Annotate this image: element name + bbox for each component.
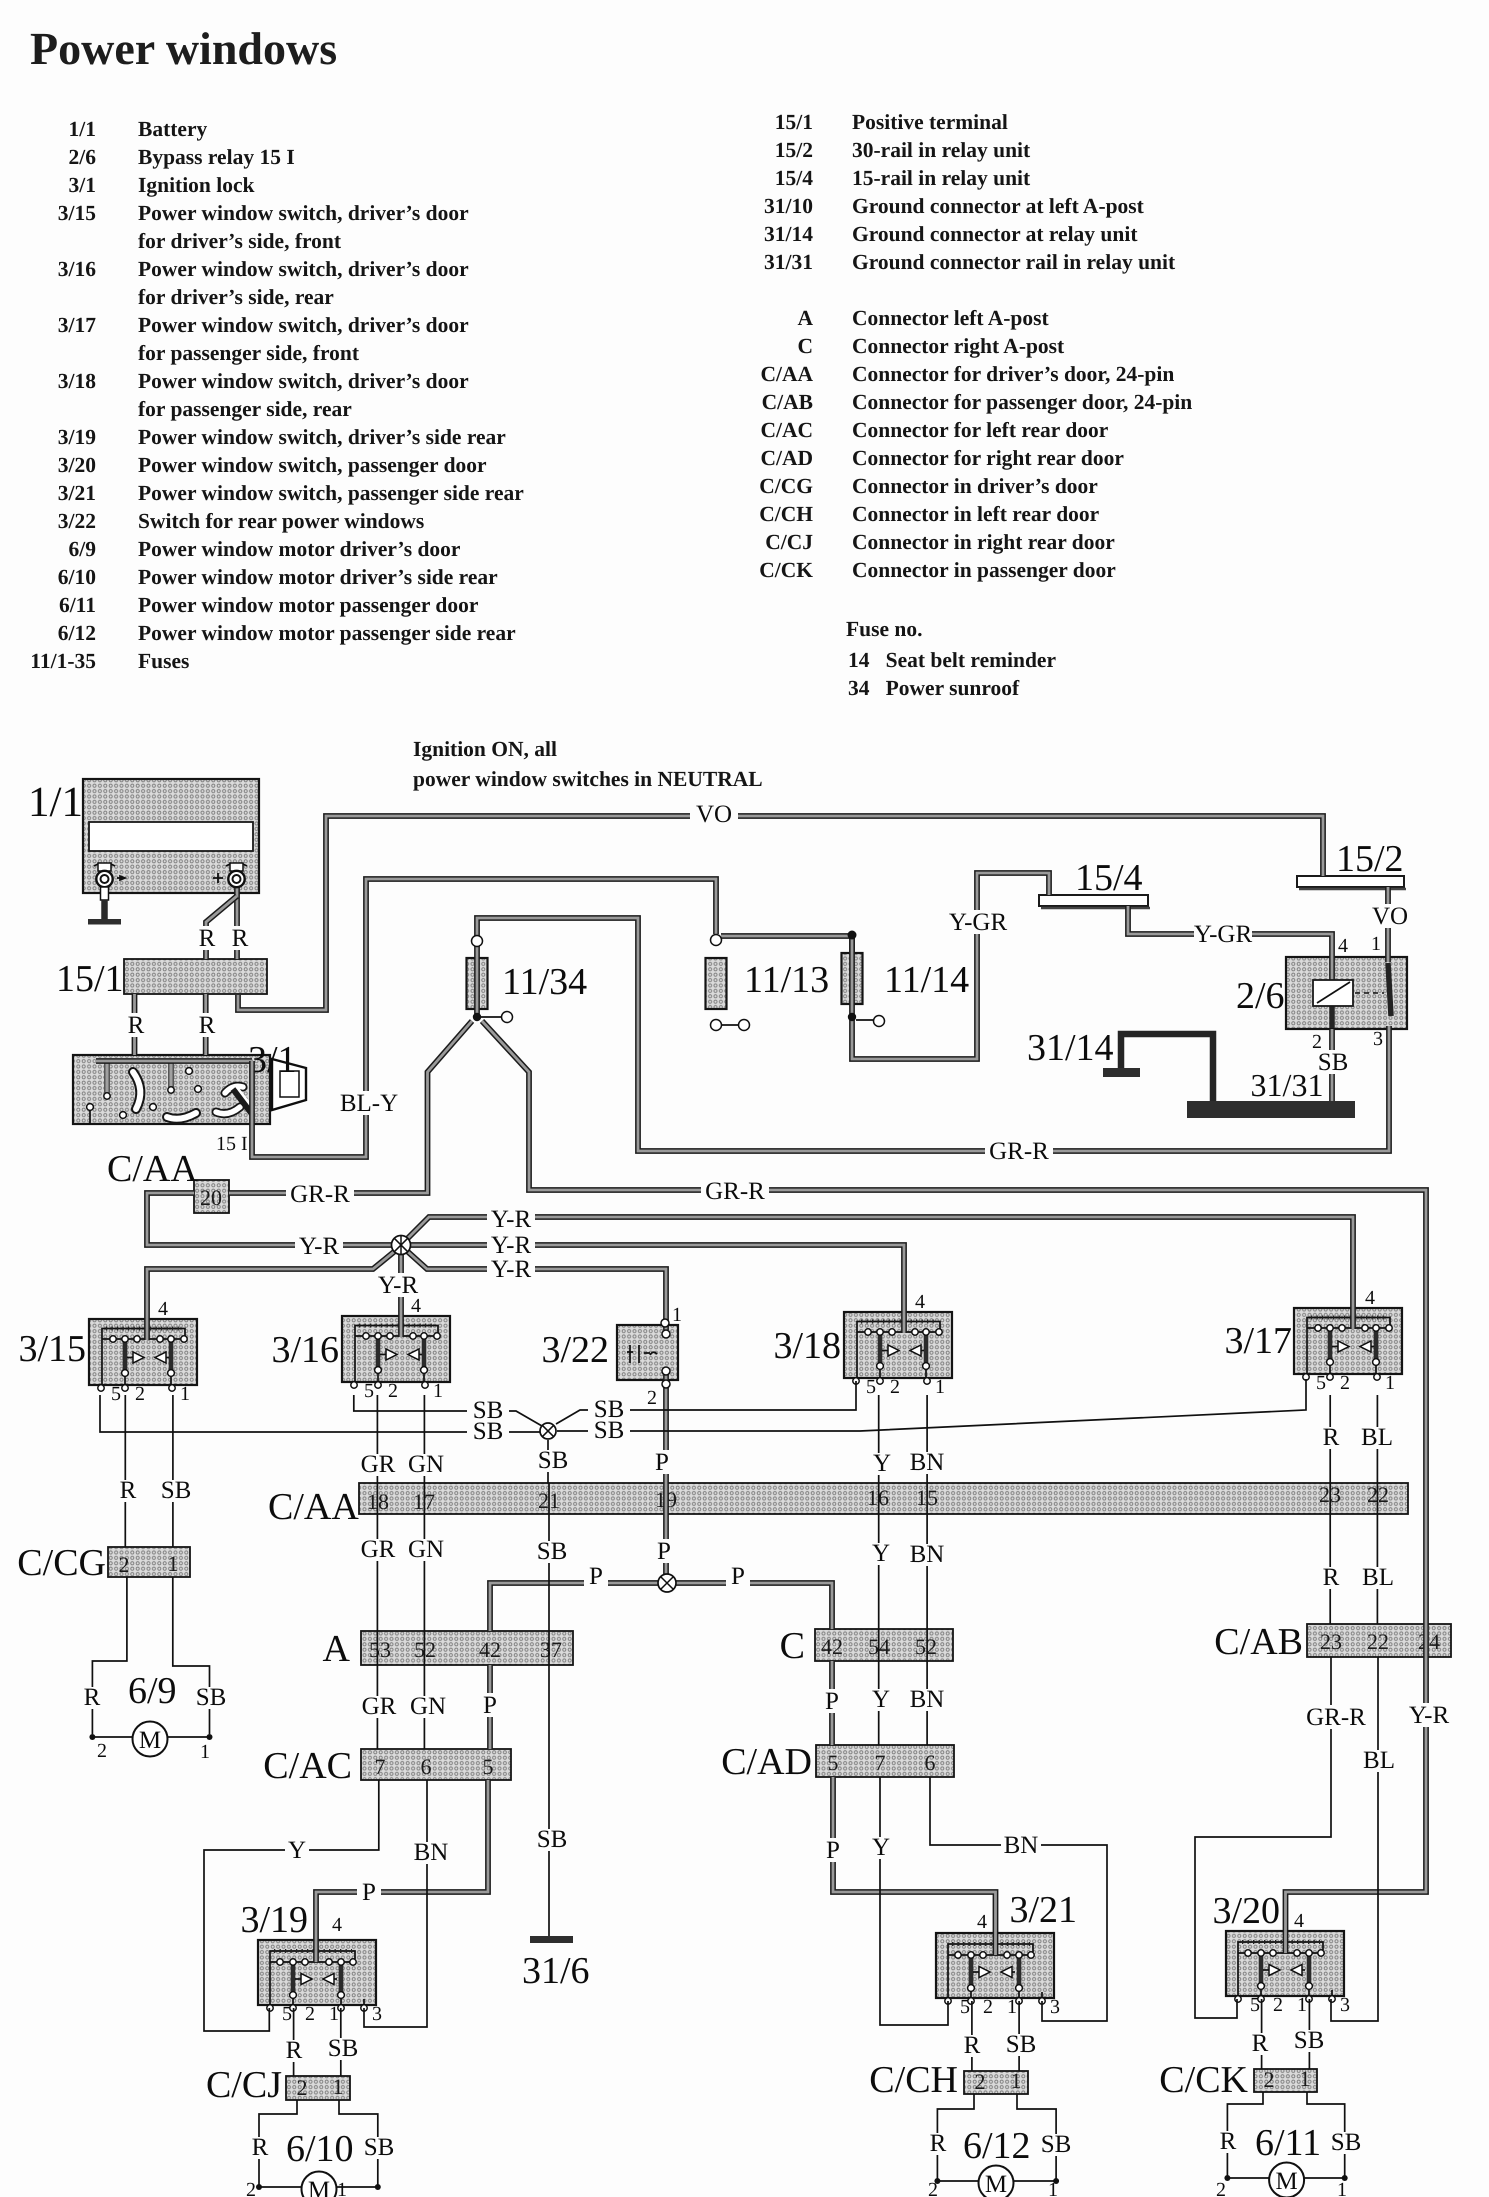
wire from 11/13 to 11/14 junction — [721, 936, 852, 953]
svg-text:Y: Y — [872, 1686, 890, 1713]
svg-text:1: 1 — [1297, 1994, 1307, 2016]
svg-text:1: 1 — [433, 1380, 443, 1402]
svg-text:2: 2 — [305, 2003, 315, 2025]
svg-text:C/CJ: C/CJ — [206, 2064, 282, 2106]
svg-text:15 I: 15 I — [216, 1133, 248, 1155]
svg-text:6/9: 6/9 — [128, 1670, 177, 1712]
svg-text:P: P — [826, 1837, 840, 1864]
svg-text:SB: SB — [537, 1538, 568, 1565]
connector C/AD — [721, 1741, 954, 1783]
svg-text:C/AD: C/AD — [721, 1741, 812, 1783]
svg-text:4: 4 — [1365, 1287, 1375, 1309]
svg-text:31/31: 31/31 — [1251, 1067, 1324, 1103]
svg-text:SB: SB — [594, 1396, 625, 1423]
positive terminal 15/1 — [56, 958, 267, 1000]
svg-text:23: 23 — [1320, 1629, 1342, 1654]
svg-text:2: 2 — [119, 1552, 130, 1577]
svg-text:11/14: 11/14 — [884, 959, 969, 1001]
battery positive leads R R to 15/1 — [198, 884, 249, 959]
wires R SB from 3/19 to C/CJ — [284, 2008, 361, 2076]
svg-text:2: 2 — [890, 1376, 900, 1398]
svg-text:R: R — [232, 925, 249, 952]
bypass relay 2/6 — [1236, 957, 1407, 1029]
svg-text:3/18: 3/18 — [773, 1325, 841, 1367]
wire SB from C/AA-21 through A-37 to ground 31/6 — [534, 1483, 570, 1937]
power window switch 3/21 — [936, 1933, 1060, 2018]
svg-text:4: 4 — [332, 1914, 342, 1936]
svg-text:GR: GR — [361, 1536, 396, 1563]
power window switch 3/19 — [258, 1940, 382, 2025]
svg-text:3/22: 3/22 — [541, 1329, 609, 1371]
fuse 11/13 terminals — [711, 935, 750, 1031]
wire VO from 15/2 to relay 2/6 pin 1 — [1370, 887, 1410, 962]
svg-text:C/AA: C/AA — [268, 1486, 359, 1528]
fuse 11/13 — [706, 958, 830, 1009]
svg-text:GN: GN — [408, 1451, 444, 1478]
connector C (right A-post) — [780, 1625, 953, 1667]
svg-text:C/AB: C/AB — [1214, 1621, 1303, 1663]
svg-text:53: 53 — [369, 1637, 391, 1662]
svg-text:5: 5 — [1316, 1372, 1326, 1394]
wires R SB from 3/20 to C/CK — [1250, 1999, 1327, 2069]
svg-text:SB: SB — [1294, 2027, 1325, 2054]
svg-text:4: 4 — [411, 1295, 421, 1317]
wire R / GR-R from 3/17 pin 2 via C/AA-23 C/AB-23 to 3/20 pin 5 — [1195, 1395, 1370, 2018]
svg-text:22: 22 — [1367, 1629, 1389, 1654]
svg-text:5: 5 — [483, 1754, 494, 1779]
svg-text:R: R — [1323, 1424, 1340, 1451]
svg-text:P: P — [731, 1563, 745, 1590]
wire SB from relay 2/6 pin 2 to 31/31 — [1312, 1029, 1351, 1101]
ground connector rail 31/31 — [1187, 1067, 1355, 1118]
svg-text:1: 1 — [168, 1551, 179, 1576]
svg-text:BN: BN — [910, 1449, 945, 1476]
svg-text:11/34: 11/34 — [502, 961, 587, 1003]
power window switch 3/18 — [844, 1312, 952, 1398]
svg-text:GR-R: GR-R — [1306, 1704, 1366, 1731]
connector A (left A-post) — [323, 1628, 573, 1670]
svg-text:C/CG: C/CG — [17, 1542, 106, 1584]
svg-text:5: 5 — [960, 1996, 970, 2018]
wire P from 3/22 pin 2 to C/AA-19 and junction — [647, 1319, 676, 1575]
svg-text:2: 2 — [1340, 1372, 1350, 1394]
svg-text:2: 2 — [246, 2179, 256, 2197]
svg-text:M: M — [139, 1727, 161, 1754]
svg-text:M: M — [1275, 2168, 1297, 2195]
wire GR from 3/16 pin 2 to C/AC-7 — [358, 1395, 399, 1749]
wire R from 3/15 pin 2 to C/CG-2 — [118, 1395, 138, 1547]
svg-text:1: 1 — [200, 1741, 210, 1763]
svg-text:7: 7 — [375, 1754, 386, 1779]
svg-text:SB: SB — [196, 1684, 227, 1711]
svg-text:1: 1 — [329, 2003, 339, 2025]
svg-text:3: 3 — [372, 2003, 382, 2025]
svg-text:Y: Y — [873, 1450, 891, 1477]
svg-text:R: R — [1220, 2128, 1237, 2155]
svg-text:Y-R: Y-R — [491, 1232, 532, 1259]
svg-text:6/12: 6/12 — [963, 2125, 1031, 2167]
svg-text:2: 2 — [135, 1383, 145, 1405]
svg-text:SB: SB — [473, 1397, 504, 1424]
svg-text:15/4: 15/4 — [1075, 857, 1143, 899]
svg-text:7: 7 — [875, 1750, 886, 1775]
power window motor 6/12 — [934, 2166, 1059, 2197]
svg-text:6: 6 — [925, 1750, 936, 1775]
svg-text:2: 2 — [388, 1380, 398, 1402]
svg-text:4: 4 — [1294, 1910, 1304, 1932]
svg-text:2: 2 — [928, 2179, 938, 2197]
svg-text:3/21: 3/21 — [1009, 1889, 1077, 1931]
svg-text:5: 5 — [364, 1380, 374, 1402]
svg-text:M: M — [308, 2177, 330, 2197]
svg-text:3: 3 — [1373, 1028, 1383, 1050]
svg-text:1: 1 — [935, 1376, 945, 1398]
svg-text:1: 1 — [1048, 2179, 1058, 2197]
svg-text:3: 3 — [1340, 1994, 1350, 2016]
svg-text:3/19: 3/19 — [240, 1899, 308, 1941]
svg-text:6/10: 6/10 — [286, 2128, 354, 2170]
svg-text:R: R — [1323, 1564, 1340, 1591]
svg-text:SB: SB — [1041, 2131, 1072, 2158]
svg-text:5: 5 — [282, 2003, 292, 2025]
svg-text:1: 1 — [1300, 2066, 1311, 2091]
ground connector 31/14 — [1027, 1027, 1213, 1101]
wire BN from 3/18 pin 1 to C/AD-6 to 3/21 pin 3 — [907, 1395, 1107, 2021]
ground 31/6 — [522, 1936, 590, 1992]
svg-text:Y-R: Y-R — [491, 1256, 532, 1283]
Y-R distribution junction — [147, 1206, 1375, 1340]
svg-text:C: C — [780, 1625, 805, 1667]
svg-text:R: R — [252, 2134, 269, 2161]
svg-text:37: 37 — [540, 1637, 562, 1662]
battery negative terminal and ground — [88, 863, 125, 925]
svg-text:VO: VO — [696, 801, 732, 828]
svg-text:1: 1 — [1337, 2179, 1347, 2197]
svg-text:42: 42 — [479, 1637, 501, 1662]
svg-text:Y-R: Y-R — [299, 1233, 340, 1260]
fuse 11/34 — [467, 958, 588, 1009]
svg-text:R: R — [199, 925, 216, 952]
svg-text:BN: BN — [910, 1541, 945, 1568]
wire Y from 3/18 pin 2 to C/AD-7 to 3/21 pin 5 — [869, 1395, 948, 2025]
svg-text:GR-R: GR-R — [705, 1178, 765, 1205]
svg-text:2: 2 — [1216, 2179, 1226, 2197]
svg-text:3/20: 3/20 — [1212, 1890, 1280, 1932]
svg-text:SB: SB — [538, 1447, 569, 1474]
svg-text:Y-R: Y-R — [491, 1206, 532, 1233]
svg-text:2/6: 2/6 — [1236, 975, 1285, 1017]
relay 2/6 internals: coil, diagonal, dashed link, armature — [1313, 963, 1391, 1028]
power window switch 3/15 — [89, 1319, 197, 1405]
svg-text:3: 3 — [1050, 1996, 1060, 2018]
svg-text:2: 2 — [1264, 2067, 1275, 2092]
svg-text:4: 4 — [1338, 935, 1348, 957]
connector C/AA pin 20 box — [107, 1148, 229, 1213]
svg-text:15/2: 15/2 — [1336, 838, 1404, 880]
wire Y-GR from 11/14 to 15/4 — [852, 873, 1049, 1059]
svg-text:Y-GR: Y-GR — [1194, 921, 1253, 948]
svg-text:11/13: 11/13 — [744, 959, 829, 1001]
svg-text:15/1: 15/1 — [56, 958, 124, 1000]
svg-text:P: P — [483, 1692, 497, 1719]
svg-text:GR-R: GR-R — [989, 1138, 1049, 1165]
wire BL-Y from ignition lock 15I to fuses 11/13 11/14 — [96, 879, 716, 1157]
svg-text:R: R — [930, 2130, 947, 2157]
svg-text:VO: VO — [1372, 903, 1408, 930]
svg-text:GN: GN — [410, 1693, 446, 1720]
svg-text:BL-Y: BL-Y — [340, 1090, 398, 1117]
svg-text:C/AA: C/AA — [107, 1148, 198, 1190]
svg-text:2: 2 — [97, 1740, 107, 1762]
fuse 11/14 terminals — [848, 931, 885, 1027]
battery 1/1 — [28, 779, 259, 893]
svg-text:R: R — [964, 2032, 981, 2059]
svg-text:C/CK: C/CK — [1159, 2059, 1248, 2101]
svg-text:4: 4 — [977, 1911, 987, 1933]
wires R SB from 3/21 to C/CH — [962, 2001, 1039, 2071]
SB bus row A from 3/16 pin 5 to 3/18 pin 5 — [354, 1381, 856, 1426]
connector C/AA 24-pin bar — [268, 1482, 1408, 1528]
connector C/CH — [964, 2068, 1028, 2094]
fuse 11/34 terminals — [472, 936, 513, 1023]
wire BN from C/AC-6 to 3/19 pin 3 — [364, 1780, 451, 2027]
wire VO from 15/1 to 15/2 — [238, 801, 1323, 1010]
connector C/AB — [1214, 1621, 1451, 1663]
svg-text:20: 20 — [200, 1185, 222, 1210]
svg-text:3/17: 3/17 — [1224, 1320, 1292, 1362]
svg-text:Y-GR: Y-GR — [949, 909, 1008, 936]
power window switch 3/16 — [342, 1316, 450, 1402]
SB junction — [535, 1423, 571, 1483]
svg-text:P: P — [589, 1563, 603, 1590]
svg-text:1: 1 — [180, 1383, 190, 1405]
svg-text:3/1: 3/1 — [248, 1039, 297, 1081]
svg-text:R: R — [128, 1012, 145, 1039]
15-rail 15/4 — [1039, 857, 1150, 908]
svg-text:M: M — [985, 2171, 1007, 2197]
svg-text:R: R — [1252, 2030, 1269, 2057]
svg-text:42: 42 — [821, 1634, 843, 1659]
svg-text:GR: GR — [361, 1451, 396, 1478]
wires R SB from C/CG to motor 6/9 — [82, 1577, 229, 1734]
svg-text:GR-R: GR-R — [290, 1181, 350, 1208]
svg-text:SB: SB — [537, 1826, 568, 1853]
connector C/CG — [108, 1547, 190, 1577]
svg-text:1: 1 — [672, 1304, 682, 1326]
svg-text:P: P — [657, 1538, 671, 1565]
ignition lock 3/1 — [73, 1039, 306, 1155]
wire SB from 3/15 pin 1 to C/CG-1 — [158, 1395, 194, 1547]
wire GN from 3/16 pin 1 to C/AC-6 — [405, 1395, 449, 1749]
wires R SB from C/CK to motor 6/11 — [1218, 2092, 1364, 2177]
svg-text:SB: SB — [364, 2134, 395, 2161]
svg-text:2: 2 — [983, 1996, 993, 2018]
svg-text:BN: BN — [1004, 1832, 1039, 1859]
svg-text:1: 1 — [1371, 933, 1381, 955]
svg-text:BL: BL — [1362, 1564, 1394, 1591]
svg-text:SB: SB — [1331, 2129, 1362, 2156]
power window motor 6/11 — [1224, 2163, 1347, 2197]
svg-text:5: 5 — [1250, 1994, 1260, 2016]
svg-text:1: 1 — [333, 2074, 344, 2099]
connector C/CJ — [286, 2074, 350, 2100]
svg-text:3/15: 3/15 — [18, 1328, 86, 1370]
svg-text:P: P — [362, 1879, 376, 1906]
svg-text:1: 1 — [1011, 2068, 1022, 2093]
connector C/AC — [263, 1745, 511, 1787]
svg-text:31/6: 31/6 — [522, 1950, 590, 1992]
wire Y-GR from 15/4 to relay 2/6 pin 4 — [1128, 906, 1348, 981]
svg-text:GR: GR — [362, 1693, 397, 1720]
svg-text:BL: BL — [1363, 1747, 1395, 1774]
svg-text:3/16: 3/16 — [271, 1329, 339, 1371]
svg-text:Y: Y — [872, 1540, 890, 1567]
svg-text:BN: BN — [414, 1839, 449, 1866]
power window motor 6/10 — [256, 2172, 381, 2197]
wires R SB from C/CH to motor 6/12 — [928, 2094, 1074, 2180]
P junction below C/AA — [490, 1563, 832, 1631]
svg-text:2: 2 — [975, 2069, 986, 2094]
svg-text:2: 2 — [1273, 1994, 1283, 2016]
svg-text:1: 1 — [1385, 1372, 1395, 1394]
30-rail 15/2 — [1297, 838, 1406, 889]
svg-text:31/14: 31/14 — [1027, 1027, 1114, 1069]
svg-text:5: 5 — [866, 1376, 876, 1398]
svg-text:A: A — [323, 1628, 351, 1670]
connector C/CK — [1254, 2066, 1317, 2092]
svg-text:1/1: 1/1 — [28, 779, 83, 826]
svg-text:6/11: 6/11 — [1255, 2122, 1321, 2164]
power window switch 3/20 — [1226, 1931, 1350, 2016]
svg-text:R: R — [120, 1477, 137, 1504]
wire R R from 15/1 to ignition lock 3/1 — [127, 994, 216, 1055]
wire GR-R from 11/34 to connector C/AA pin 20 — [229, 1021, 472, 1208]
svg-text:52: 52 — [915, 1634, 937, 1659]
svg-text:2: 2 — [647, 1387, 657, 1409]
svg-text:2: 2 — [297, 2075, 308, 2100]
battery positive terminal — [213, 863, 247, 887]
wire GR-R / Y-R from 11/34 down right edge to 3/20 pin 4 — [482, 1021, 1455, 1953]
wire P from A-42 via C/AC-5 to 3/19 pin 4 — [316, 1665, 502, 1962]
power window switch 3/17 — [1294, 1308, 1402, 1394]
svg-text:SB: SB — [1318, 1049, 1349, 1076]
svg-text:Y: Y — [288, 1837, 306, 1864]
svg-text:C/CH: C/CH — [869, 2059, 958, 2101]
wire Y from C/AC-7 to 3/19 pin 5 — [204, 1780, 379, 2031]
svg-text:R: R — [199, 1012, 216, 1039]
svg-text:4: 4 — [915, 1291, 925, 1313]
wire BL from 3/17 pin 1 via C/AA-22 C/AB-22 to 3/20 pin 3 — [1331, 1395, 1396, 2021]
wire Y-R from C/AA-20 to junction — [147, 1193, 392, 1260]
svg-text:24: 24 — [1418, 1629, 1440, 1654]
svg-text:BN: BN — [910, 1686, 945, 1713]
svg-text:5: 5 — [111, 1383, 121, 1405]
SB bus row B from 3/15 pin 5 to 3/17 pin 5 — [100, 1379, 1306, 1445]
wires R SB from C/CJ to motor 6/10 — [250, 2100, 397, 2185]
svg-text:GN: GN — [408, 1536, 444, 1563]
svg-text:BL: BL — [1361, 1424, 1393, 1451]
svg-text:R: R — [286, 2037, 303, 2064]
svg-text:P: P — [655, 1449, 669, 1476]
svg-text:R: R — [84, 1684, 101, 1711]
svg-text:4: 4 — [158, 1298, 168, 1320]
svg-text:Y: Y — [872, 1834, 890, 1861]
svg-text:6: 6 — [421, 1754, 432, 1779]
svg-text:SB: SB — [161, 1477, 192, 1504]
fuse 11/14 — [842, 953, 970, 1004]
svg-text:C/AC: C/AC — [263, 1745, 352, 1787]
wire P from C-42 via C/AD-5 to 3/21 pin 4 — [820, 1661, 996, 1955]
svg-text:1: 1 — [337, 2179, 347, 2197]
svg-text:Y-R: Y-R — [1409, 1702, 1450, 1729]
switch for rear power windows 3/22 — [541, 1325, 678, 1380]
svg-text:5: 5 — [828, 1750, 839, 1775]
svg-text:SB: SB — [328, 2035, 359, 2062]
svg-text:1: 1 — [1007, 1996, 1017, 2018]
power window motor 6/9 — [89, 1722, 212, 1757]
svg-text:SB: SB — [1006, 2031, 1037, 2058]
svg-text:P: P — [825, 1688, 839, 1715]
wire GR-R from fuse 11/34 to relay 2/6 pin 3 — [477, 918, 1389, 1165]
